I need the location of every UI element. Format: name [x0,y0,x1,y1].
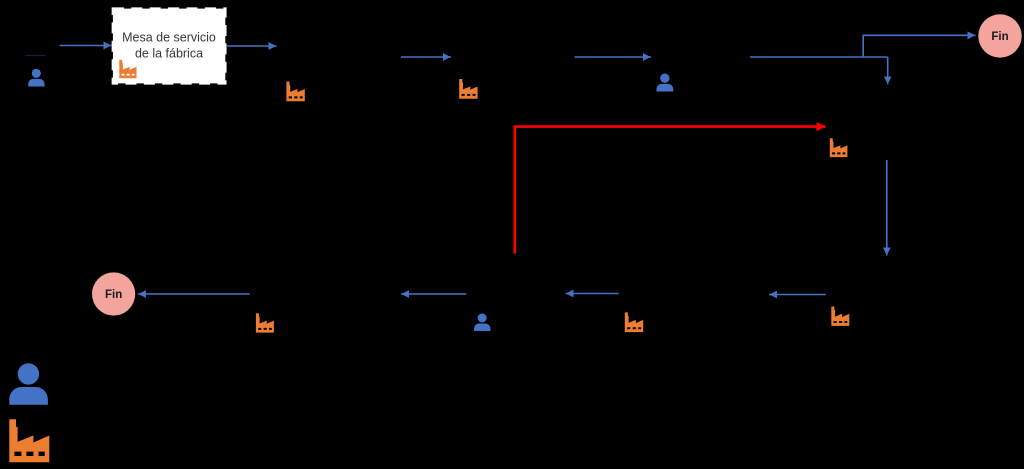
svg-text:Fin: Fin [991,31,1008,43]
person icon P3 (node 9) [474,313,490,331]
wire arrow: node 6 down to node 7 [886,160,888,256]
wire: node 5 output trunk [750,56,888,58]
svg-text:Mesa de servicio: Mesa de servicio [122,31,216,45]
wire arrow down branch to node 6 [887,57,889,84]
wire arrow to Fin (up branch) [863,35,975,57]
legend person icon P4 [9,363,48,404]
wire arrow A6: node 8 -> node 9 [566,293,619,295]
factory icon F5 (node 7) [831,307,849,326]
factory icon F2 (node 3) [286,82,304,102]
terminator Fin (bottom left) [92,272,135,315]
wire arrow A4: node 4 -> node 5 [575,56,652,58]
node: Mesa de servicio de la fabrica (white dashed box) [113,9,225,84]
terminator Fin (top right) [978,14,1021,57]
red wire arrow: node 8 -> node 6 [515,127,826,254]
legend factory icon F8 [9,419,49,462]
svg-text:de la fábrica: de la fábrica [135,47,203,61]
person icon P2 (node 5) [657,74,674,92]
start node underline (faint) [26,55,47,57]
factory icon F1 (inside Mesa box) [119,60,136,78]
wire arrow A7: node 9 -> node 10 [401,293,466,295]
wire arrow A3: node 3 -> node 4 [401,56,451,58]
factory icon F3 (node 4) [459,79,477,99]
factory icon F4 (node 6) [830,138,848,157]
factory icon F7 (node 10) [256,313,274,332]
factory icon F6 (node 8) [625,312,643,332]
wire arrow A2: Mesa -> node 3 [227,45,277,47]
person icon P1 (start node) [28,69,44,87]
svg-text:Fin: Fin [105,289,122,301]
wire arrow A1: start -> Mesa de servicio [60,45,112,47]
wire arrow A5: node 7 -> node 8 [769,294,826,296]
wire arrow A8: node 10 -> Fin (bottom) [138,293,250,295]
